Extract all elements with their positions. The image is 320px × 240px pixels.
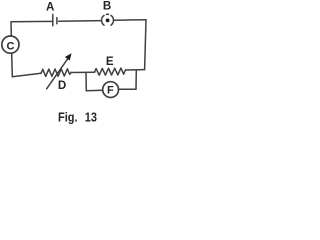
wire voltmeter-left-drop [85, 73, 87, 91]
wire voltmeter-left-horizontal [86, 89, 102, 92]
wire top-right-horizontal [114, 19, 146, 21]
svg-text:E: E [106, 55, 114, 68]
resistor E [95, 68, 126, 75]
wire top-left-horizontal [11, 20, 52, 22]
wire bottom-left-horizontal [12, 73, 41, 77]
wire bottom-right-horizontal [126, 69, 145, 71]
svg-text:F: F [107, 85, 114, 97]
svg-text:B: B [103, 0, 111, 12]
cell A [53, 15, 57, 26]
ammeter C [2, 36, 19, 53]
svg-text:Fig.13: Fig.13 [58, 110, 97, 125]
svg-text:A: A [46, 1, 55, 14]
wire between D and E with junction [71, 71, 94, 73]
wire voltmeter-right-rise [135, 70, 137, 89]
svg-text:C: C [7, 41, 15, 53]
wire voltmeter-right-horizontal [119, 88, 136, 90]
wire left-vertical-lower [11, 54, 14, 77]
wire right-vertical [145, 20, 146, 70]
wire left-vertical-upper [10, 22, 12, 36]
svg-text:D: D [58, 79, 66, 92]
voltmeter F [103, 82, 119, 98]
plug key B [102, 14, 114, 25]
wire top-middle [59, 20, 102, 23]
rheostat D [41, 53, 72, 89]
